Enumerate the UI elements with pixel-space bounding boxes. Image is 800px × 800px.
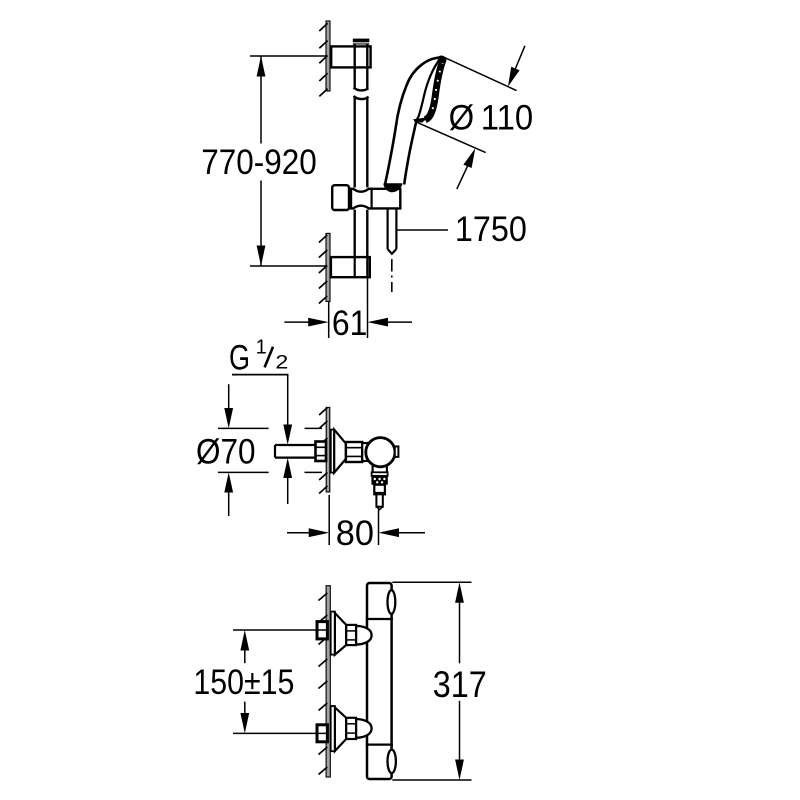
top union hex [346, 625, 356, 645]
extension line top (770-920 upper) [250, 55, 326, 57]
lower wall plate [326, 233, 330, 301]
top union pipe [317, 622, 327, 639]
middle wall hatch ticks [319, 408, 327, 494]
bottom union cone [335, 707, 346, 751]
bar bottom knob ellipse [388, 750, 396, 773]
G 1/2 leader vertical + down arrow [287, 375, 289, 428]
hand shower: tip blob [436, 54, 447, 64]
outlet band [372, 472, 388, 476]
dimension 80 extension lines [329, 495, 378, 545]
Ø70 dimension vertical + arrows [228, 384, 230, 410]
top union dome [356, 626, 372, 645]
svg-text:2: 2 [275, 353, 288, 374]
dimension 80 arrows [287, 532, 311, 534]
middle wall strip [326, 407, 330, 492]
holder divider [371, 188, 373, 210]
pipe nut [316, 442, 327, 462]
shower holder body [351, 189, 400, 209]
Ø70 extension lines [218, 428, 322, 472]
svg-text:1750: 1750 [455, 210, 527, 249]
escutcheon cone [334, 430, 346, 473]
escutcheon flange [331, 430, 334, 473]
top wall plate [326, 21, 330, 91]
bottom union pipe [317, 725, 327, 742]
hose nut black cap in holder [384, 183, 403, 192]
arrowhead down (770-920 bottom) [257, 246, 266, 267]
bottom union dome [356, 719, 372, 738]
lower wall hatch ticks [319, 235, 327, 304]
Ø110 bottom arrow [457, 163, 469, 189]
bottom union flange [331, 706, 335, 751]
shower holder knob [332, 185, 349, 210]
top rail bracket [331, 46, 370, 67]
svg-text:Ø70: Ø70 [196, 432, 256, 471]
dimension 317 extension lines [392, 582, 471, 780]
hand shower: chin ledge [414, 120, 422, 121]
Ø110 top arrow [514, 46, 525, 72]
dimension 61 extension lines [329, 278, 368, 338]
150 extension bottom [233, 732, 326, 734]
arrowhead up (770-920 top) [257, 56, 266, 77]
hose axis dash-dot [391, 259, 393, 292]
svg-text:770-920: 770-920 [201, 143, 317, 182]
dimension 150±15 vertical + arrows [244, 646, 246, 718]
svg-text:G: G [229, 339, 250, 378]
G 1/2 underline [232, 374, 289, 376]
svg-text:150±15: 150±15 [193, 663, 294, 702]
leader line 1750 [397, 229, 448, 231]
rail cap (black) [353, 39, 370, 43]
valve tab [395, 446, 399, 457]
rail break lower start [354, 96, 369, 188]
svg-text:Ø 110: Ø 110 [449, 99, 534, 138]
hand shower: spray face stipple band [425, 60, 443, 120]
dimension Ø110 top extension line [443, 57, 517, 91]
rail middle segment (holder to lower bracket) [355, 210, 368, 278]
valve body circle [366, 438, 395, 467]
hand shower: back silhouette + handle left edge [385, 58, 441, 185]
thermostat bar body [367, 583, 392, 779]
lower rail bracket [331, 257, 370, 277]
hose tip [376, 494, 382, 506]
hose [388, 210, 397, 254]
connector hex [346, 442, 362, 462]
inlet pipe [275, 445, 317, 458]
bottom wall strip [326, 586, 330, 777]
svg-text:80: 80 [336, 514, 374, 553]
rail upper segment [354, 44, 369, 91]
hose connector [374, 485, 385, 495]
bottom wall hatch ticks [319, 593, 328, 775]
knurled nut [371, 476, 387, 485]
bar seam top [366, 618, 393, 620]
150 extension top [233, 629, 326, 631]
hand shower: face front arc [417, 58, 441, 120]
top union flange [331, 612, 335, 655]
dimension Ø110 bottom extension line [416, 122, 486, 153]
top union cone [335, 613, 346, 655]
svg-text:317: 317 [433, 664, 487, 705]
dimension 317 vertical + arrows [459, 600, 461, 762]
dimension 770-920 vertical line [260, 56, 262, 266]
bar top knob ellipse [388, 590, 396, 614]
bar seam bottom [366, 743, 393, 745]
bottom union hex [346, 718, 356, 739]
extension line bottom (770-920 lower) [250, 265, 326, 267]
svg-text:1: 1 [256, 337, 267, 359]
lower bracket rail lines [355, 257, 368, 277]
top wall hatch ticks [319, 23, 327, 96]
dimension 61 arrows [284, 321, 310, 323]
valve neck [362, 443, 375, 461]
svg-text:61: 61 [332, 304, 368, 343]
hand shower: handle right edge [404, 120, 416, 185]
G 1/2 lower arrow (up) [287, 475, 289, 504]
rail cap underline [353, 43, 370, 45]
outlet neck [373, 466, 387, 473]
